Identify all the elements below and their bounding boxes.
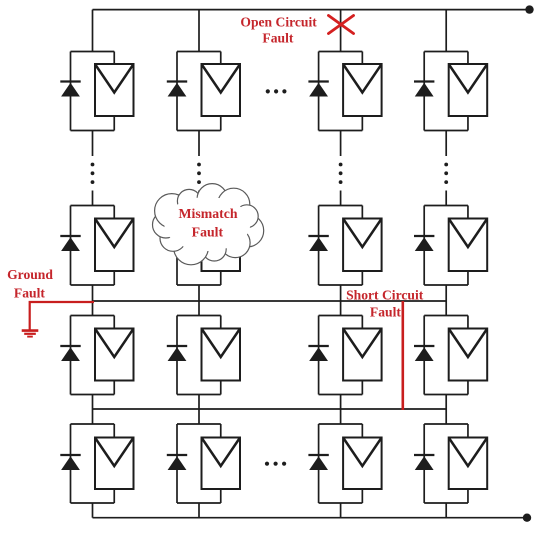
bypass diode D43 <box>308 455 328 470</box>
wire: string 4 segment row 2 to row 3 (through tie bus) <box>445 285 447 316</box>
wire: module bottom stub, row 4 col 2 <box>220 489 222 503</box>
wire: string 1 segment row 3 to row 4 (through tie bus) <box>92 395 94 425</box>
wire: string 4 segment row 3 to row 4 (through tie bus) <box>445 395 447 425</box>
wire: string 3 drop from top bus <box>340 10 342 52</box>
node: positive array terminal <box>525 5 533 13</box>
node: negative array terminal <box>523 514 531 522</box>
wire: parallel-loop bottom, module row 2 col 1 <box>71 284 115 286</box>
wire: diode branch, row 4 col 4 <box>423 424 425 503</box>
wire: module bottom stub, row 1 col 4 <box>467 116 469 131</box>
wire: module top stub, row 2 col 1 <box>113 206 115 219</box>
wire: module bottom stub, row 1 col 3 <box>361 116 363 131</box>
svg-text:Mismatch: Mismatch <box>178 206 237 221</box>
PV module PV13 <box>343 64 382 116</box>
PV module PV21 <box>95 219 134 272</box>
PV module PV12 <box>202 64 241 116</box>
svg-text:Fault: Fault <box>262 31 293 46</box>
wire: string 3 segment above row 2 <box>340 191 342 206</box>
wire: string 4 segment above row 2 <box>445 191 447 206</box>
wire: diode branch, row 1 col 3 <box>318 52 320 131</box>
PV module PV14 <box>449 64 488 116</box>
wire: parallel-loop top, module row 4 col 4 <box>424 423 468 425</box>
label: Short Circuit Fault <box>346 288 424 320</box>
string 4 continuation dots (vertical ellipsis) <box>444 163 448 184</box>
wire: string 2 segment row 2 to row 3 (through tie bus) <box>198 285 200 316</box>
PV module PV43 <box>343 438 382 490</box>
bypass diode D32 <box>167 346 187 361</box>
wire: cross-tie bus between row 3 and row 4 <box>93 408 447 410</box>
bypass diode D14 <box>414 82 434 97</box>
wire: module top stub, row 4 col 3 <box>361 424 363 438</box>
wire: string 4 segment below row 1 <box>445 131 447 157</box>
wire: string 3 segment to bottom bus <box>340 503 342 518</box>
wire: parallel-loop bottom, module row 1 col 4 <box>424 130 468 132</box>
wire: module bottom stub, row 4 col 3 <box>361 489 363 503</box>
wire: string 4 drop from top bus <box>445 10 447 52</box>
wire: parallel-loop top, module row 1 col 3 <box>319 51 363 53</box>
wire: diode branch, row 2 col 3 <box>318 206 320 286</box>
wire: string 2 segment below row 1 <box>198 131 200 157</box>
wire: parallel-loop bottom, module row 3 col 1 <box>71 394 115 396</box>
wire: diode branch, row 4 col 1 <box>70 424 72 503</box>
wire: module top stub, row 4 col 4 <box>467 424 469 438</box>
wire: short-circuit fault (red) <box>401 301 404 410</box>
wire: module top stub, row 4 col 2 <box>220 424 222 438</box>
label: Ground Fault <box>7 267 53 300</box>
wire: module bottom stub, row 4 col 4 <box>467 489 469 503</box>
wire: diode branch, row 4 col 2 <box>176 424 178 503</box>
svg-text:Fault: Fault <box>14 286 45 301</box>
wire: parallel-loop top, module row 2 col 1 <box>71 205 115 207</box>
wire: ground-fault connection (red) <box>30 302 94 331</box>
wire: module bottom stub, row 2 col 2 <box>220 271 222 285</box>
svg-text:Ground: Ground <box>7 267 53 282</box>
bypass diode D44 <box>414 455 434 470</box>
bypass diode D23 <box>308 236 328 251</box>
wire: string 2 segment to bottom bus <box>198 503 200 518</box>
wire: diode branch, row 3 col 3 <box>318 316 320 395</box>
wire: parallel-loop bottom, module row 2 col 3 <box>319 284 363 286</box>
wire: module top stub, row 1 col 3 <box>361 52 363 65</box>
wire: module top stub, row 2 col 3 <box>361 206 363 219</box>
wire: string 3 segment below row 1 <box>340 131 342 157</box>
wire: parallel-loop bottom, module row 3 col 3 <box>319 394 363 396</box>
label: Mismatch Fault <box>178 206 237 240</box>
ground symbol <box>22 331 39 337</box>
wire: cross-tie bus between row 2 and row 3 <box>93 300 447 302</box>
wire: parallel-loop bottom, module row 4 col 3 <box>319 502 363 504</box>
wire: parallel-loop bottom, module row 2 col 4 <box>424 284 468 286</box>
bypass diode D24 <box>414 236 434 251</box>
wire: module bottom stub, row 4 col 1 <box>113 489 115 503</box>
wire: diode branch, row 1 col 1 <box>70 52 72 131</box>
string 1 continuation dots (vertical ellipsis) <box>91 163 95 184</box>
bypass diode D11 <box>60 82 80 97</box>
wire: parallel-loop bottom, module row 3 col 4 <box>424 394 468 396</box>
wire: parallel-loop top, module row 1 col 4 <box>424 51 468 53</box>
wire: module bottom stub, row 1 col 2 <box>220 116 222 131</box>
wire: parallel-loop top, module row 2 col 4 <box>424 205 468 207</box>
wire: parallel-loop bottom, module row 2 col 2 <box>177 284 221 286</box>
wire: module top stub, row 1 col 1 <box>113 52 115 65</box>
wire: string 3 segment row 2 to row 3 (through tie bus) <box>340 285 342 316</box>
wire: parallel-loop top, module row 1 col 1 <box>71 51 115 53</box>
label: Open Circuit Fault <box>240 15 317 46</box>
bypass diode D22 <box>167 236 187 251</box>
wire: diode branch, row 4 col 3 <box>318 424 320 503</box>
wire: module bottom stub, row 3 col 2 <box>220 381 222 395</box>
wire: diode branch, row 2 col 2 <box>176 206 178 286</box>
wire: module top stub, row 3 col 4 <box>467 316 469 329</box>
wire: parallel-loop bottom, module row 3 col 2 <box>177 394 221 396</box>
PV module PV23 <box>343 219 382 272</box>
wire: diode branch, row 1 col 2 <box>176 52 178 131</box>
wire: bottom bus <box>93 517 528 519</box>
wire: top bus <box>93 9 530 11</box>
wire: string 2 drop from top bus <box>198 10 200 52</box>
wire: parallel-loop top, module row 4 col 3 <box>319 423 363 425</box>
string 2 continuation dots (vertical ellipsis) <box>197 163 201 184</box>
PV module PV31 <box>95 329 134 381</box>
PV module PV42 <box>202 438 241 490</box>
bypass diode D31 <box>60 346 80 361</box>
wire: parallel-loop top, module row 4 col 1 <box>71 423 115 425</box>
PV module PV24 <box>449 219 488 272</box>
wire: parallel-loop top, module row 1 col 2 <box>177 51 221 53</box>
row 1 continuation dots (horizontal ellipsis) <box>266 89 287 93</box>
wire: parallel-loop top, module row 3 col 1 <box>71 315 115 317</box>
wire: parallel-loop bottom, module row 4 col 1 <box>71 502 115 504</box>
bypass diode D34 <box>414 346 434 361</box>
bypass diode D33 <box>308 346 328 361</box>
wire: parallel-loop bottom, module row 1 col 1 <box>71 130 115 132</box>
bypass diode D42 <box>167 455 187 470</box>
string 3 continuation dots (vertical ellipsis) <box>339 163 343 184</box>
wire: string 1 drop from top bus <box>92 10 94 52</box>
wire: string 1 segment above row 2 <box>92 191 94 206</box>
wire: parallel-loop bottom, module row 4 col 2 <box>177 502 221 504</box>
PV module PV11 <box>95 64 134 116</box>
wire: module top stub, row 3 col 3 <box>361 316 363 329</box>
wire: module top stub, row 3 col 1 <box>113 316 115 329</box>
wire: module top stub, row 4 col 1 <box>113 424 115 438</box>
open-circuit fault X mark <box>329 16 354 34</box>
wire: module top stub, row 3 col 2 <box>220 316 222 329</box>
bypass diode D41 <box>60 455 80 470</box>
wire: module bottom stub, row 2 col 1 <box>113 271 115 285</box>
mismatch fault cloud <box>153 184 264 265</box>
wire: diode branch, row 3 col 1 <box>70 316 72 395</box>
row 4 continuation dots (horizontal ellipsis) <box>265 462 286 466</box>
wire: string 2 segment row 3 to row 4 (through tie bus) <box>198 395 200 425</box>
wire: module top stub, row 1 col 4 <box>467 52 469 65</box>
wire: string 1 segment to bottom bus <box>92 503 94 518</box>
wire: parallel-loop top, module row 2 col 2 <box>177 205 221 207</box>
wire: diode branch, row 1 col 4 <box>423 52 425 131</box>
wire: diode branch, row 3 col 4 <box>423 316 425 395</box>
wire: diode branch, row 2 col 1 <box>70 206 72 286</box>
svg-text:Short Circuit: Short Circuit <box>346 288 424 303</box>
bypass diode D12 <box>167 82 187 97</box>
wire: parallel-loop bottom, module row 1 col 3 <box>319 130 363 132</box>
wire: module bottom stub, row 3 col 3 <box>361 381 363 395</box>
PV module PV44 <box>449 438 488 490</box>
bypass diode D13 <box>308 82 328 97</box>
wire: module top stub, row 1 col 2 <box>220 52 222 65</box>
wire: module bottom stub, row 1 col 1 <box>113 116 115 131</box>
wire: diode branch, row 2 col 4 <box>423 206 425 286</box>
wire: diode branch, row 3 col 2 <box>176 316 178 395</box>
wire: module bottom stub, row 2 col 4 <box>467 271 469 285</box>
wire: parallel-loop top, module row 2 col 3 <box>319 205 363 207</box>
PV module PV32 <box>202 329 241 381</box>
PV module PV22 <box>202 219 241 272</box>
wire: module top stub, row 2 col 4 <box>467 206 469 219</box>
PV module PV41 <box>95 438 134 490</box>
wire: module bottom stub, row 2 col 3 <box>361 271 363 285</box>
wire: parallel-loop bottom, module row 1 col 2 <box>177 130 221 132</box>
wire: string 1 segment below row 1 <box>92 131 94 157</box>
PV module PV33 <box>343 329 382 381</box>
wire: string 1 segment row 2 to row 3 (through tie bus) <box>92 285 94 316</box>
wire: module bottom stub, row 3 col 4 <box>467 381 469 395</box>
wire: module bottom stub, row 3 col 1 <box>113 381 115 395</box>
svg-text:Fault: Fault <box>370 305 401 320</box>
wire: parallel-loop top, module row 3 col 3 <box>319 315 363 317</box>
PV module PV34 <box>449 329 488 381</box>
wire: parallel-loop bottom, module row 4 col 4 <box>424 502 468 504</box>
bypass diode D21 <box>60 236 80 251</box>
wire: module top stub, row 2 col 2 <box>220 206 222 219</box>
svg-text:Open Circuit: Open Circuit <box>240 15 317 30</box>
svg-text:Fault: Fault <box>192 225 224 240</box>
wire: parallel-loop top, module row 3 col 4 <box>424 315 468 317</box>
wire: parallel-loop top, module row 4 col 2 <box>177 423 221 425</box>
wire: string 2 segment above row 2 <box>198 191 200 206</box>
wire: parallel-loop top, module row 3 col 2 <box>177 315 221 317</box>
wire: string 3 segment row 3 to row 4 (through tie bus) <box>340 395 342 425</box>
wire: string 4 segment to bottom bus <box>445 503 447 518</box>
